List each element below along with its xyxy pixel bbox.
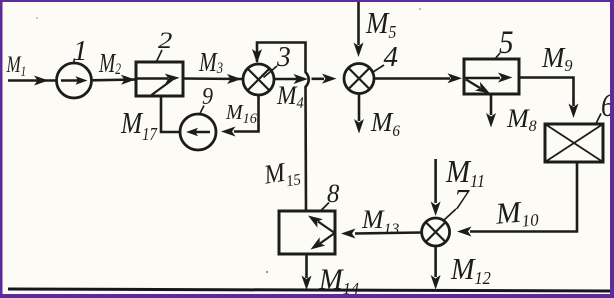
arrow on M2: [121, 75, 136, 85]
label M2: [98, 49, 121, 79]
label M15: [261, 154, 303, 193]
label 3 with tick: [264, 41, 291, 77]
mixer 3 (circle with X): [243, 64, 274, 95]
arrow on M16 into pump 9: [221, 127, 236, 137]
label M14: [318, 263, 359, 298]
arrow inside box 2: [165, 74, 180, 84]
wire M1 inlet: [8, 79, 56, 82]
arrow on M9 into box 6: [569, 104, 579, 119]
label 2 with tick: [157, 28, 173, 62]
label 1 with tick: [73, 35, 88, 67]
label M6: [370, 107, 400, 140]
crossed box 6: [545, 124, 603, 162]
merge diagonal inside box 2: [152, 80, 173, 95]
arrow into mixer 3 top: [252, 49, 262, 64]
label M5: [365, 6, 396, 42]
arrow on M4 into mixer 4: [322, 74, 337, 84]
label M1: [6, 53, 27, 80]
wire M9: [519, 78, 574, 107]
label 9 with tick: [200, 82, 214, 114]
wire M14 outlet: [305, 255, 308, 279]
wire M11 inlet: [434, 159, 437, 203]
arrow on split diagonal: [475, 82, 490, 94]
svg-text:2: 2: [158, 28, 172, 54]
arrow up-left inside box 8: [308, 216, 323, 228]
lower split diagonal inside box 8: [320, 234, 334, 244]
split diagonal inside box 5: [466, 80, 480, 89]
arrow on M11: [431, 202, 441, 217]
mixer 7 (circle with X): [422, 218, 450, 246]
scan speck: [36, 17, 38, 19]
wire M4 first segment: [274, 78, 297, 81]
svg-text:9: 9: [202, 82, 213, 109]
label 4 with tick: [372, 41, 399, 73]
label 8 with tick: [321, 179, 340, 210]
label M3: [198, 48, 223, 78]
svg-text:5: 5: [499, 23, 514, 60]
arrow on M1: [34, 76, 49, 86]
label M9: [541, 43, 573, 76]
arrow on M5: [354, 43, 364, 58]
label M17: [120, 107, 158, 145]
arrow on M8: [486, 113, 496, 128]
arrow down-left inside box 8: [311, 237, 326, 249]
arrow on M6: [354, 119, 364, 134]
pump 9 (circle with left arrow): [180, 114, 216, 150]
splitter box 5: [464, 59, 519, 94]
wire M5 inlet: [357, 2, 360, 45]
arrow on M12: [431, 275, 441, 290]
wire M17: pump 9 to box 2 bottom: [161, 98, 180, 133]
wire M8 outlet: [490, 95, 493, 116]
svg-text:8: 8: [327, 179, 340, 208]
label M11: [445, 154, 485, 192]
arrow on M13 into box 8: [341, 229, 356, 239]
wire mixer 4 to box 5: [374, 77, 450, 80]
wire M15 recycle: box 8 up, hop over M4, loop into mixer 3 top: [257, 43, 309, 212]
wire M13: [355, 233, 422, 234]
label 7 with tick: [444, 185, 471, 221]
mixer 4 (circle with X): [344, 64, 374, 94]
figure bottom rule: [8, 289, 613, 291]
svg-text:4: 4: [384, 41, 399, 73]
pump 1 (circle with right arrow): [57, 63, 92, 98]
label 5 with tick: [494, 23, 514, 60]
label M4: [276, 82, 304, 112]
label 6 with tick: [596, 86, 614, 123]
wire M6 outlet: [358, 94, 361, 122]
wire M16: mixer 3 bottom to pump 9: [234, 95, 259, 132]
line through box 2: [137, 77, 168, 80]
svg-text:1: 1: [73, 35, 88, 67]
label M12: [450, 253, 491, 288]
wire M3: [183, 77, 243, 80]
scan speck: [419, 8, 421, 10]
label M13: [361, 205, 399, 238]
splitter box 8: [279, 211, 335, 254]
wire M2: [92, 78, 137, 81]
arrow on M10 into mixer 7: [457, 227, 472, 237]
wire M12 outlet: [434, 246, 437, 277]
wire M4 second segment: [312, 78, 325, 81]
wire M10: box 6 down and left to mixer 7: [470, 163, 577, 232]
label M16: [225, 102, 258, 128]
arrow into box 5: [448, 73, 463, 83]
arrow on M14: [302, 276, 312, 291]
apparatus box 2: [136, 62, 183, 96]
arrow on M3: [227, 74, 242, 84]
svg-text:3: 3: [276, 41, 291, 73]
scan speck: [266, 271, 268, 273]
arrow inside box 5: [498, 73, 513, 83]
line through box 5: [465, 77, 500, 80]
arrow on M4 at hop: [294, 74, 309, 84]
label M10: [494, 194, 540, 233]
label M8: [506, 104, 537, 135]
upper split diagonal inside box 8: [318, 222, 334, 233]
